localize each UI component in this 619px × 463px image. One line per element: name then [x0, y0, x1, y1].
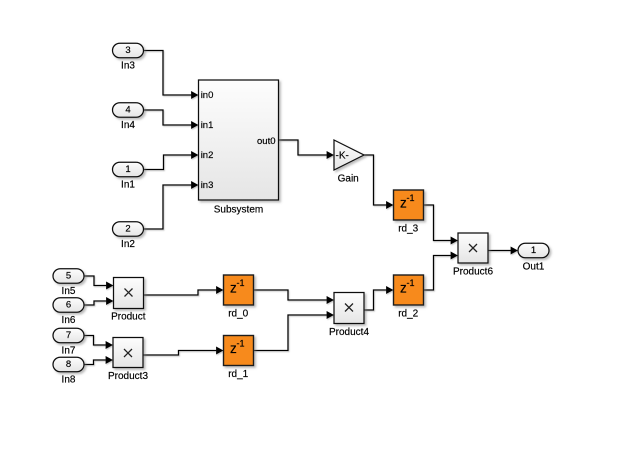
svg-text:6: 6: [66, 299, 71, 310]
svg-text:-1: -1: [237, 339, 245, 349]
svg-text:In7: In7: [62, 346, 76, 357]
svg-text:In4: In4: [121, 120, 135, 131]
svg-text:in0: in0: [201, 90, 214, 101]
svg-text:in1: in1: [201, 120, 214, 131]
svg-text:Product6: Product6: [453, 266, 493, 277]
svg-text:rd_2: rd_2: [398, 309, 418, 320]
svg-text:In6: In6: [62, 315, 76, 326]
svg-text:-K-: -K-: [336, 151, 349, 162]
svg-text:Product: Product: [111, 312, 146, 323]
svg-text:5: 5: [66, 270, 71, 281]
svg-text:In8: In8: [62, 375, 76, 386]
svg-text:rd_3: rd_3: [398, 224, 418, 235]
svg-text:In2: In2: [121, 239, 135, 250]
svg-text:-1: -1: [237, 278, 245, 288]
svg-text:3: 3: [125, 45, 130, 56]
svg-text:Gain: Gain: [338, 174, 359, 185]
svg-text:In1: In1: [121, 180, 135, 191]
svg-text:Out1: Out1: [523, 261, 545, 272]
svg-text:-1: -1: [407, 193, 415, 203]
svg-text:2: 2: [125, 223, 130, 234]
svg-text:Product4: Product4: [329, 327, 369, 338]
svg-text:rd_1: rd_1: [228, 369, 248, 380]
svg-text:7: 7: [66, 330, 71, 341]
svg-text:In3: In3: [121, 61, 135, 72]
svg-text:out0: out0: [257, 136, 276, 147]
svg-text:in3: in3: [201, 180, 214, 191]
svg-text:4: 4: [125, 104, 130, 115]
svg-text:1: 1: [531, 245, 536, 256]
svg-text:Subsystem: Subsystem: [214, 205, 263, 216]
svg-text:Product3: Product3: [108, 371, 148, 382]
svg-text:rd_0: rd_0: [228, 309, 248, 320]
svg-text:8: 8: [66, 359, 71, 370]
svg-text:In5: In5: [62, 286, 76, 297]
svg-text:1: 1: [125, 164, 130, 175]
svg-text:-1: -1: [407, 278, 415, 288]
svg-text:in2: in2: [201, 150, 214, 161]
